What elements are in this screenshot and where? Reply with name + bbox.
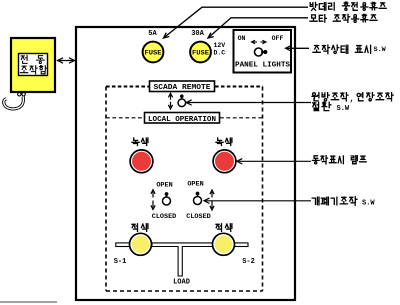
svg-text:CLOSED: CLOSED — [152, 213, 176, 221]
svg-text:S-2: S-2 — [242, 258, 255, 266]
svg-text:ON: ON — [238, 35, 246, 42]
svg-text:OPEN: OPEN — [156, 182, 172, 190]
svg-text:FUSE: FUSE — [145, 50, 162, 57]
svg-text:S.W: S.W — [374, 46, 387, 54]
svg-text:FUSE: FUSE — [192, 50, 209, 57]
svg-text:LOCAL OPERATION: LOCAL OPERATION — [148, 116, 216, 124]
svg-text:CLOSED: CLOSED — [186, 213, 210, 221]
svg-text:S-1: S-1 — [114, 258, 127, 266]
svg-text:SCADA REMOTE: SCADA REMOTE — [154, 84, 211, 92]
svg-text:PANEL LIGHTS: PANEL LIGHTS — [235, 61, 290, 69]
svg-text:30A: 30A — [191, 30, 204, 38]
svg-text:OPEN: OPEN — [187, 181, 203, 189]
svg-text:12V: 12V — [214, 42, 226, 49]
svg-text:5A: 5A — [148, 30, 157, 38]
svg-text:LOAD: LOAD — [173, 279, 190, 287]
svg-text:,: , — [350, 95, 355, 104]
svg-text:S.W: S.W — [337, 105, 350, 113]
svg-text:S.W: S.W — [362, 200, 375, 208]
svg-text:OFF: OFF — [272, 35, 284, 42]
svg-text:D.C: D.C — [214, 50, 226, 57]
